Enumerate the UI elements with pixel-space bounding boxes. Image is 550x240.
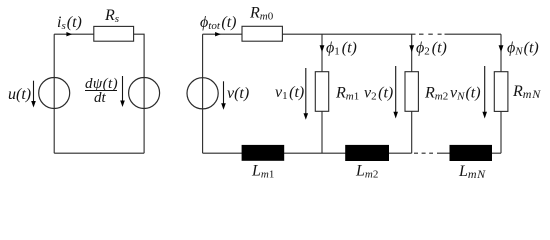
arrow phi2 on branch2 — [409, 45, 414, 52]
resistor Rm0 — [242, 26, 282, 41]
arrow phiN on branchN — [499, 45, 504, 52]
fraction bar — [85, 90, 117, 92]
arrow phi1 on branch1 — [320, 45, 325, 52]
svg-text:Rm2: Rm2 — [424, 85, 448, 103]
wire right-circuit top rail solid — [203, 33, 416, 35]
arrow dpsi/dt voltage — [122, 76, 124, 101]
svg-text:RmN: RmN — [512, 83, 541, 101]
wire left-circuit bottom rail — [54, 152, 144, 154]
wire branchN vertical — [500, 34, 502, 153]
source dpsi/dt circle — [129, 78, 160, 109]
svg-text:is(t): is(t) — [57, 14, 82, 32]
svg-text:ϕ2(t): ϕ2(t) — [416, 40, 447, 58]
resistor Rs — [94, 26, 134, 41]
inductor Lm2 — [345, 145, 389, 161]
arrow vN voltage — [484, 66, 486, 112]
arrow v(t) voltage — [223, 81, 225, 104]
arrow phi_tot on top wire — [215, 32, 221, 36]
resistor RmN — [494, 72, 508, 112]
resistor Rm1 — [315, 72, 328, 112]
wire left-circuit left vertical — [53, 34, 55, 153]
svg-text:Lm1: Lm1 — [251, 163, 274, 181]
svg-text:Rs: Rs — [104, 7, 119, 25]
svg-text:u(t): u(t) — [8, 86, 31, 103]
arrow v1 voltage — [305, 68, 307, 114]
svg-text:Rm1: Rm1 — [335, 85, 359, 103]
wire right-circuit bottom rail right segment — [437, 152, 501, 154]
arrow v2 voltage — [395, 66, 397, 112]
svg-text:ϕtot(t): ϕtot(t) — [200, 14, 237, 32]
svg-text:dt: dt — [94, 90, 107, 106]
wire right-circuit top rail right segment — [445, 33, 502, 35]
inductor Lm1 — [242, 145, 285, 161]
wire right-circuit top rail dashed — [419, 33, 442, 35]
svg-text:v1(t): v1(t) — [275, 84, 304, 102]
wire left-circuit right vertical lower — [143, 108, 145, 153]
source u(t) circle — [39, 78, 70, 109]
svg-text:Rm0: Rm0 — [249, 5, 274, 23]
wire branch1 vertical — [321, 34, 323, 153]
wire through v(t) source — [202, 78, 204, 109]
svg-text:ϕ1(t): ϕ1(t) — [326, 40, 357, 58]
resistor Rm2 — [405, 72, 418, 112]
svg-text:ϕN(t): ϕN(t) — [507, 40, 539, 58]
inductor LmN — [450, 145, 493, 161]
wire through dpsi/dt source — [143, 78, 145, 109]
wire right-circuit bottom rail dashed — [414, 152, 433, 154]
wire left-circuit top rail — [54, 33, 94, 35]
arrow is(t) on top wire — [66, 32, 72, 36]
svg-text:LmN: LmN — [458, 163, 486, 181]
svg-text:Lm2: Lm2 — [355, 163, 378, 181]
wire left-circuit top rail right segment — [134, 34, 145, 78]
svg-text:v2(t): v2(t) — [364, 85, 393, 103]
arrow u(t) voltage — [33, 81, 35, 102]
svg-text:v(t): v(t) — [227, 85, 249, 102]
wire through u(t) source — [53, 78, 55, 109]
wire branch2 vertical — [411, 34, 413, 153]
wire right-circuit bottom rail solid — [203, 152, 412, 154]
wire right-circuit left vertical — [202, 34, 204, 153]
source v(t) circle — [187, 78, 218, 109]
svg-text:vN(t): vN(t) — [450, 85, 481, 103]
